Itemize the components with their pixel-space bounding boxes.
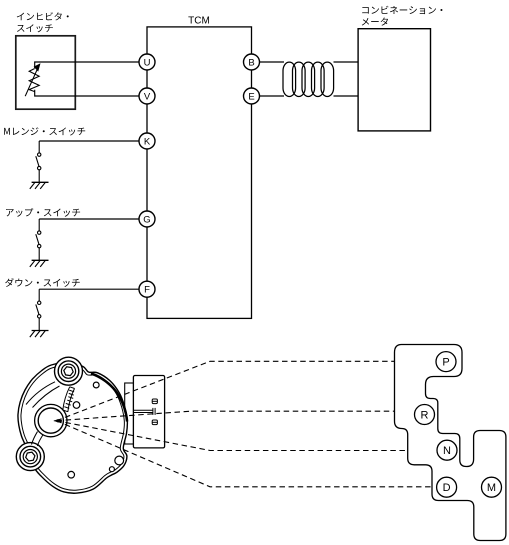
- hole (top): [93, 382, 99, 388]
- ground (down switch): [30, 331, 49, 338]
- upper mounting ear: [55, 357, 83, 385]
- connector key slot: [134, 408, 155, 415]
- shift gate outline: [395, 345, 506, 541]
- ground (up switch): [30, 260, 49, 267]
- svg-text:G: G: [143, 214, 150, 225]
- body inner rim: [21, 365, 124, 490]
- hole (middle): [73, 402, 80, 409]
- terminal K: [139, 133, 155, 149]
- svg-text:R: R: [421, 409, 429, 421]
- svg-text:U: U: [144, 57, 151, 68]
- connector housing: [133, 376, 164, 448]
- ground (M-range switch): [30, 182, 49, 189]
- wire E to coil: [252, 95, 285, 97]
- hole (bottom): [68, 471, 75, 478]
- wire coil to meter (top): [334, 61, 359, 63]
- terminal F: [139, 281, 155, 297]
- lobe hole (small): [109, 467, 114, 472]
- inhibitor switch body (mechanical view): [18, 362, 127, 493]
- svg-text:P: P: [442, 357, 449, 369]
- body rim shading (thick edge): [91, 374, 127, 422]
- svg-text:D: D: [443, 482, 451, 494]
- svg-text:N: N: [443, 445, 451, 457]
- center boss outer: [35, 404, 67, 436]
- wire V to inhibitor switch: [35, 90, 147, 96]
- rib hatched (ear to boss): [63, 387, 75, 412]
- wire U to inhibitor switch: [35, 62, 147, 68]
- terminal E: [244, 88, 260, 104]
- connector pin (lower): [152, 420, 157, 425]
- position D: [437, 477, 457, 497]
- terminal V: [139, 88, 155, 104]
- combination meter box: [358, 29, 430, 131]
- label combination meter line2: [362, 17, 388, 25]
- wire K to M-range switch: [39, 140, 147, 142]
- lower mounting ear: [16, 443, 44, 471]
- TCM box U1: [147, 27, 252, 319]
- wire coil to meter (bottom): [334, 95, 359, 97]
- dashed line to P: [57, 361, 395, 420]
- position M: [482, 477, 502, 497]
- wire F to down switch: [39, 288, 147, 290]
- up switch S2: [36, 219, 41, 260]
- dashed line to N: [57, 421, 408, 451]
- label inhibitor switch line2: [17, 24, 53, 32]
- wire G to up switch: [39, 218, 147, 220]
- rib upper-left arm: [26, 382, 55, 405]
- rib upper-left arm inner: [33, 386, 60, 408]
- svg-text:M: M: [487, 482, 496, 494]
- connector flange: [125, 383, 134, 444]
- svg-text:V: V: [144, 91, 151, 102]
- svg-text:B: B: [248, 57, 254, 68]
- inhibitor switch box: [16, 36, 76, 109]
- position P: [436, 352, 456, 372]
- upper bolt B1: [58, 361, 79, 382]
- twisted pair coil L1: [283, 62, 334, 96]
- label combination meter line1: [362, 6, 442, 14]
- svg-text:F: F: [144, 285, 150, 296]
- position R: [415, 405, 435, 425]
- rheostat (inhibitor switch element): [25, 67, 39, 96]
- connector pin (upper): [152, 399, 157, 404]
- lower bolt B2: [20, 446, 41, 467]
- svg-text:E: E: [248, 91, 254, 102]
- M-range switch S1: [36, 141, 41, 182]
- down switch S3: [36, 289, 41, 330]
- terminal B: [244, 54, 260, 70]
- label down switch: [5, 278, 80, 287]
- terminal G: [139, 211, 155, 227]
- position N: [437, 440, 457, 460]
- lobe hole (large): [115, 456, 124, 465]
- shaft pointer mark: [54, 419, 59, 423]
- label M-range switch: [4, 127, 85, 135]
- terminal U: [139, 54, 155, 70]
- rib lower-left: [32, 432, 38, 445]
- center shaft hole: [38, 408, 63, 433]
- dashed line to D: [57, 421, 433, 487]
- wire B to coil: [252, 61, 285, 63]
- svg-text:K: K: [144, 136, 151, 147]
- label inhibitor switch line1: [17, 12, 69, 20]
- svg-text:TCM: TCM: [188, 16, 210, 27]
- label up switch: [6, 208, 80, 217]
- dashed line to R: [57, 411, 395, 421]
